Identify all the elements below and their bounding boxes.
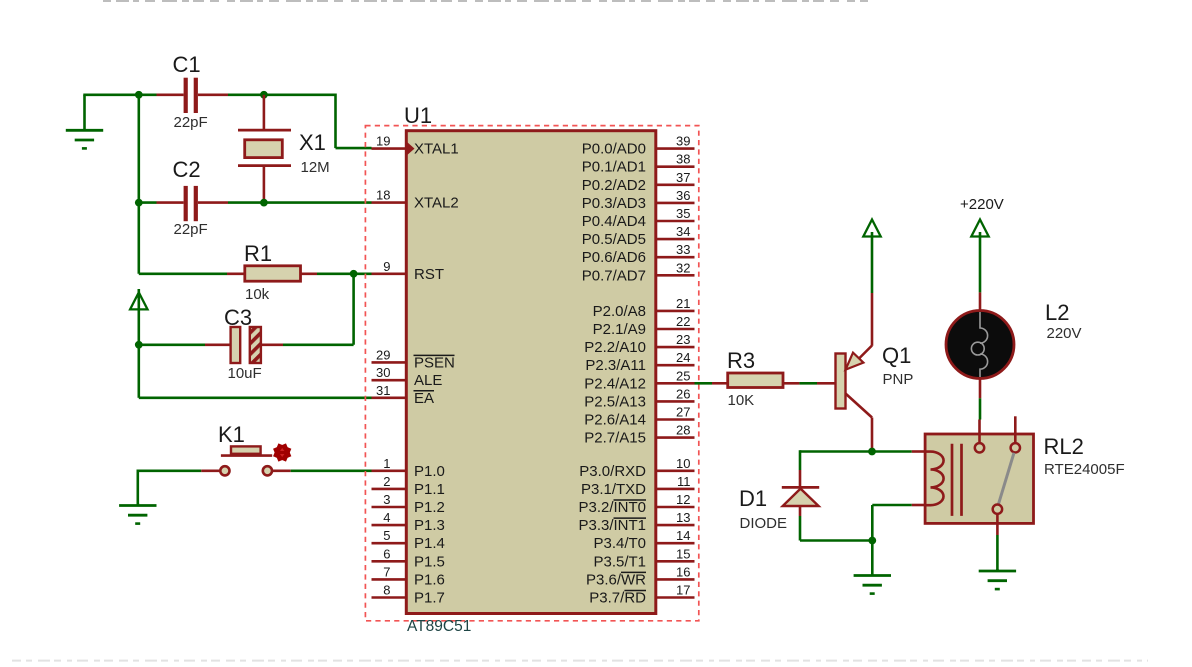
- svg-text:22: 22: [676, 314, 690, 329]
- svg-text:P0.1/AD1: P0.1/AD1: [582, 159, 646, 176]
- push button K1: [201, 446, 290, 475]
- svg-text:P2.4/A12: P2.4/A12: [584, 375, 646, 392]
- svg-text:10k: 10k: [245, 286, 270, 303]
- svg-text:19: 19: [376, 134, 390, 149]
- transistor Q1 (PNP): [817, 293, 872, 450]
- svg-text:D1: D1: [739, 486, 767, 511]
- svg-text:33: 33: [676, 242, 690, 257]
- svg-text:24: 24: [676, 350, 690, 365]
- wire R3 to Q1 base: [799, 382, 817, 385]
- svg-text:+220V: +220V: [960, 196, 1004, 213]
- svg-text:P2.0/A8: P2.0/A8: [593, 303, 646, 320]
- wire C3 node down and right to EA pin31: [139, 345, 372, 398]
- pin 33 P0.6/AD6: [582, 242, 695, 266]
- pin 2 P1.1: [372, 474, 445, 498]
- capacitor C3 (electrolytic): [139, 327, 283, 363]
- pin 39 P0.0/AD0: [582, 134, 695, 158]
- op-amp U1 (AT89C51 microcontroller) body: [365, 126, 698, 621]
- capacitor C1: [139, 78, 264, 113]
- wire K1 right to pin1 P1.0: [291, 469, 372, 472]
- svg-text:28: 28: [676, 423, 690, 438]
- svg-text:P0.3/AD3: P0.3/AD3: [582, 195, 646, 212]
- svg-text:27: 27: [676, 405, 690, 420]
- node junction RST: [350, 270, 358, 278]
- relay RL2: [925, 416, 1033, 535]
- svg-text:AT89C51: AT89C51: [407, 618, 471, 635]
- svg-text:RTE24005F: RTE24005F: [1044, 461, 1125, 478]
- svg-text:R1: R1: [244, 241, 272, 266]
- svg-text:10uF: 10uF: [228, 365, 262, 382]
- svg-text:22pF: 22pF: [174, 221, 208, 238]
- pin 30 ALE: [372, 365, 443, 389]
- lamp L2: [946, 292, 1014, 398]
- svg-text:P0.5/AD5: P0.5/AD5: [582, 231, 646, 248]
- K1 interactive actuator marker: [273, 443, 291, 461]
- pin 28 P2.7/A15: [584, 423, 694, 447]
- pin 10 P3.0/RXD: [579, 456, 694, 480]
- pin 37 P0.2/AD2: [582, 170, 695, 194]
- svg-text:ALE: ALE: [414, 372, 442, 389]
- wire K1 left to ground: [138, 470, 202, 506]
- svg-text:RST: RST: [414, 266, 444, 283]
- pin 13 P3.3/INT1: [578, 510, 694, 534]
- pin 7 P1.6: [372, 564, 445, 588]
- wire D1 bottom to ground node: [800, 539, 872, 542]
- svg-text:4: 4: [383, 510, 390, 525]
- svg-text:29: 29: [376, 347, 390, 362]
- svg-text:P2.1/A9: P2.1/A9: [593, 321, 646, 338]
- pin 34 P0.5/AD5: [582, 224, 695, 248]
- wire collector node to relay coil top: [800, 450, 925, 453]
- pin 16 P3.6/WR: [586, 564, 695, 588]
- wire crystal-bottom to XTAL2 pin18: [264, 201, 372, 204]
- svg-text:P1.5: P1.5: [414, 553, 445, 570]
- svg-text:P0.7/AD7: P0.7/AD7: [582, 267, 646, 284]
- svg-text:P0.6/AD6: P0.6/AD6: [582, 249, 646, 266]
- resistor R3: [712, 373, 799, 388]
- svg-text:DIODE: DIODE: [740, 515, 788, 532]
- pin 4 P1.3: [372, 510, 445, 534]
- wire relay common to ground: [996, 535, 999, 571]
- svg-text:P2.5/A13: P2.5/A13: [584, 393, 646, 410]
- svg-text:P1.3: P1.3: [414, 517, 445, 534]
- svg-text:U1: U1: [404, 103, 432, 128]
- svg-text:15: 15: [676, 546, 690, 561]
- wire left vertical bus C1-C2-R1: [138, 95, 141, 274]
- svg-text:38: 38: [676, 152, 690, 167]
- diode D1: [782, 450, 819, 540]
- svg-text:25: 25: [676, 368, 690, 383]
- svg-text:P0.0/AD0: P0.0/AD0: [582, 141, 646, 158]
- svg-text:37: 37: [676, 170, 690, 185]
- svg-text:C3: C3: [224, 305, 252, 330]
- svg-text:P2.6/A14: P2.6/A14: [584, 412, 646, 429]
- pin 12 P3.2/INT0: [578, 492, 694, 516]
- node junction C2 left: [135, 199, 143, 207]
- svg-text:EA: EA: [414, 390, 434, 407]
- pin 15 P3.5/T1: [593, 546, 694, 570]
- svg-text:8: 8: [383, 583, 390, 598]
- svg-text:P3.7/RD: P3.7/RD: [589, 590, 646, 607]
- svg-text:XTAL1: XTAL1: [414, 141, 459, 158]
- crystal X1: [238, 95, 291, 203]
- svg-text:21: 21: [676, 296, 690, 311]
- pin 17 P3.7/RD: [589, 583, 694, 607]
- wire lamp to relay common contact: [979, 398, 982, 419]
- svg-text:P3.1/TXD: P3.1/TXD: [581, 481, 646, 498]
- pin 25 P2.4/A12: [584, 368, 694, 392]
- node junction crystal top: [260, 91, 268, 99]
- svg-text:16: 16: [676, 564, 690, 579]
- svg-text:5: 5: [383, 528, 390, 543]
- pin 9 RST: [372, 259, 445, 283]
- svg-text:10: 10: [676, 456, 690, 471]
- svg-text:K1: K1: [218, 422, 245, 447]
- svg-text:13: 13: [676, 510, 690, 525]
- svg-text:31: 31: [376, 383, 390, 398]
- svg-text:PNP: PNP: [883, 371, 914, 388]
- wire pin25 to R3: [695, 382, 713, 385]
- svg-text:P3.2/INT0: P3.2/INT0: [578, 499, 646, 516]
- svg-text:RL2: RL2: [1044, 434, 1084, 459]
- node junction C3 left: [135, 341, 143, 349]
- svg-text:P1.6: P1.6: [414, 571, 445, 588]
- svg-text:30: 30: [376, 365, 390, 380]
- svg-text:XTAL2: XTAL2: [414, 195, 459, 212]
- svg-text:Q1: Q1: [882, 343, 911, 368]
- pin 5 P1.4: [372, 528, 445, 552]
- node junction C1 left: [135, 91, 143, 99]
- ground (relay): [979, 569, 1016, 589]
- pin 23 P2.2/A10: [584, 332, 694, 356]
- svg-text:C2: C2: [173, 157, 201, 182]
- svg-text:12M: 12M: [301, 159, 330, 176]
- svg-text:P3.0/RXD: P3.0/RXD: [579, 463, 646, 480]
- pin 11 P3.1/TXD: [581, 474, 695, 498]
- svg-text:3: 3: [383, 492, 390, 507]
- svg-text:R3: R3: [727, 348, 755, 373]
- svg-text:7: 7: [383, 564, 390, 579]
- pin 1 P1.0: [372, 456, 445, 480]
- svg-text:17: 17: [676, 583, 690, 598]
- svg-text:P3.5/T1: P3.5/T1: [593, 553, 646, 570]
- pin 35 P0.4/AD4: [582, 206, 695, 230]
- svg-text:P3.3/INT1: P3.3/INT1: [578, 517, 646, 534]
- wire node up to relay coil bottom: [872, 505, 925, 541]
- svg-text:11: 11: [677, 474, 691, 489]
- svg-text:35: 35: [676, 206, 690, 221]
- svg-text:36: 36: [676, 188, 690, 203]
- pin 32 P0.7/AD7: [582, 260, 695, 284]
- node junction Q1 collector / relay coil / D1: [868, 448, 876, 456]
- svg-text:PSEN: PSEN: [414, 354, 455, 371]
- pin 36 P0.3/AD3: [582, 188, 695, 212]
- wire RST junction to pin9: [354, 272, 372, 275]
- pin 21 P2.0/A8: [593, 296, 695, 320]
- svg-text:L2: L2: [1045, 300, 1069, 325]
- svg-text:12: 12: [676, 492, 690, 507]
- svg-text:23: 23: [676, 332, 690, 347]
- svg-text:P0.2/AD2: P0.2/AD2: [582, 177, 646, 194]
- pin 14 P3.4/T0: [593, 528, 694, 552]
- wire ground to node at C1: [83, 94, 139, 97]
- svg-text:34: 34: [676, 224, 690, 239]
- svg-text:P1.2: P1.2: [414, 499, 445, 516]
- pin 27 P2.6/A14: [584, 405, 694, 429]
- svg-text:10K: 10K: [728, 392, 755, 409]
- svg-text:32: 32: [676, 260, 690, 275]
- resistor R1: [139, 266, 354, 281]
- svg-text:39: 39: [676, 134, 690, 149]
- power symbol (up arrow, Q1 emitter): [863, 220, 880, 294]
- svg-text:P2.7/A15: P2.7/A15: [584, 430, 646, 447]
- pin 29 PSEN: [372, 347, 455, 371]
- svg-text:P3.6/WR: P3.6/WR: [586, 571, 646, 588]
- pin 19 XTAL1: [372, 134, 459, 158]
- svg-text:2: 2: [383, 474, 390, 489]
- ground (K1): [119, 503, 156, 524]
- pin 8 P1.7: [372, 583, 445, 607]
- svg-text:14: 14: [676, 528, 690, 543]
- pin 31 EA: [372, 383, 435, 407]
- svg-text:P0.4/AD4: P0.4/AD4: [582, 213, 646, 230]
- pin 18 XTAL2: [372, 188, 459, 212]
- svg-text:22pF: 22pF: [174, 114, 208, 131]
- wire RST junction down to C3 right: [283, 274, 354, 345]
- svg-text:220V: 220V: [1047, 325, 1082, 342]
- svg-text:P2.2/A10: P2.2/A10: [584, 339, 646, 356]
- pin 24 P2.3/A11: [585, 350, 694, 374]
- svg-text:18: 18: [376, 188, 390, 203]
- svg-text:26: 26: [676, 386, 690, 401]
- svg-text:1: 1: [383, 456, 390, 471]
- svg-text:P1.1: P1.1: [414, 481, 445, 498]
- node junction D1 / coil return / ground: [868, 537, 876, 545]
- ground (D1 / coil net): [854, 539, 891, 594]
- svg-text:C1: C1: [173, 52, 201, 77]
- svg-text:X1: X1: [299, 130, 326, 155]
- power symbol (VCC up arrow, reset net): [130, 289, 147, 345]
- svg-text:9: 9: [383, 259, 390, 274]
- svg-text:P2.3/A11: P2.3/A11: [585, 357, 646, 374]
- svg-text:P3.4/T0: P3.4/T0: [593, 535, 646, 552]
- node junction crystal bottom: [260, 199, 268, 207]
- svg-text:P1.7: P1.7: [414, 590, 445, 607]
- power symbol +220V: [960, 196, 1004, 292]
- capacitor C2: [139, 186, 264, 221]
- svg-text:P1.4: P1.4: [414, 535, 445, 552]
- ground (top left, crystal net): [66, 95, 103, 149]
- pin 26 P2.5/A13: [584, 386, 694, 410]
- pin 22 P2.1/A9: [593, 314, 695, 338]
- pin 38 P0.1/AD1: [582, 152, 695, 176]
- pin 6 P1.5: [372, 546, 445, 570]
- wire crystal-top to XTAL1 pin19: [264, 94, 372, 149]
- svg-text:P1.0: P1.0: [414, 463, 445, 480]
- pin 3 P1.2: [372, 492, 445, 516]
- svg-text:6: 6: [383, 546, 390, 561]
